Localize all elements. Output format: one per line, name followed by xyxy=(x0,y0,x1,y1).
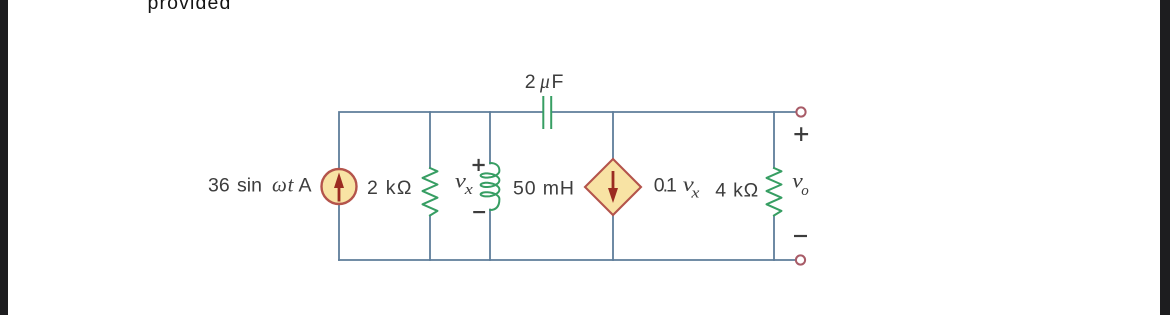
wire: top rail left of capacitor xyxy=(339,112,543,260)
wire: bottom rail xyxy=(339,259,796,261)
capacitor C1 2 uF plates xyxy=(543,97,551,128)
label: vo with polarity marks xyxy=(792,127,809,236)
resistor R2 4 kOhm xyxy=(767,168,782,216)
svg-text:2: 2 xyxy=(525,71,536,93)
inductor L1 50 mH (coil) xyxy=(481,163,500,210)
output terminal bottom (node -) xyxy=(796,255,805,264)
svg-text:x: x xyxy=(464,182,474,198)
svg-text:36: 36 xyxy=(208,175,230,197)
svg-text:o: o xyxy=(801,183,809,199)
svg-text:50 mH: 50 mH xyxy=(513,177,574,199)
wire: 4k resistor branch xyxy=(773,112,775,260)
wire: dependent source branch xyxy=(612,112,614,260)
resistor R1 2 kOhm xyxy=(423,168,438,216)
dependent current source 0.1vx (diamond) xyxy=(585,159,641,215)
svg-text:4 kΩ: 4 kΩ xyxy=(715,179,758,201)
svg-text:2 kΩ: 2 kΩ xyxy=(367,177,411,199)
svg-text:F: F xyxy=(552,71,564,93)
svg-text:ωt: ωt xyxy=(272,173,295,197)
wire: inductor branch xyxy=(489,112,491,260)
svg-text:0.1: 0.1 xyxy=(654,175,677,197)
svg-text:sin: sin xyxy=(237,175,262,197)
label: vx with polarity marks xyxy=(455,159,485,212)
svg-text:x: x xyxy=(690,186,700,202)
label: 0.1 vx xyxy=(654,174,700,202)
wire: 2k resistor branch xyxy=(429,112,431,260)
current source I1 36 sin wt A xyxy=(322,169,357,204)
wire: top rail right of capacitor xyxy=(552,111,797,113)
svg-text:A: A xyxy=(299,175,312,197)
label: 2 uF xyxy=(525,71,564,93)
output terminal top (node +) xyxy=(796,107,805,116)
svg-text:μ: μ xyxy=(539,72,550,93)
svg-text:provided: provided xyxy=(148,0,232,14)
label: 36 sin wt A xyxy=(208,173,312,197)
